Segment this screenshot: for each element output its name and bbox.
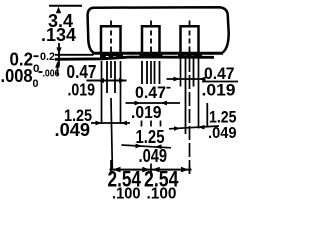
package body outline	[88, 7, 229, 53]
lead 3 centerline extension	[189, 58, 191, 169]
dim 3.4 bottom arrow	[56, 47, 61, 54]
dim 1.25 right line	[169, 126, 219, 129]
lead 2 centerline extension	[150, 61, 152, 84]
lead 2 foot band	[140, 54, 163, 59]
lead 1 wide-edge extension lines	[101, 61, 103, 124]
svg-text:.006: .006	[43, 68, 60, 80]
lead 3 centerline	[189, 21, 191, 53]
svg-text:0.47: 0.47	[135, 83, 166, 102]
dim 1.25 center line	[122, 145, 172, 148]
package bottom extension line	[55, 54, 94, 56]
label 0.2 sup minus	[34, 55, 39, 57]
svg-text:.100: .100	[112, 186, 141, 201]
svg-text:.134: .134	[41, 25, 76, 45]
lead 3 wide-edge extension lines	[180, 58, 182, 87]
svg-text:.008: .008	[1, 66, 33, 86]
svg-text:.049: .049	[208, 125, 237, 142]
lead 3 foot band	[178, 53, 202, 58]
dim 3.4 line	[58, 43, 60, 66]
dim 0.47 right line	[167, 78, 204, 80]
seating plane line	[55, 57, 214, 59]
dim 1.25 left line	[91, 122, 130, 124]
dim 0.47 center line	[126, 102, 181, 104]
lead 1 narrow-edge extension lines	[106, 61, 108, 93]
svg-text:.019: .019	[131, 102, 162, 122]
svg-text:.049: .049	[55, 119, 91, 140]
svg-text:0: 0	[33, 63, 40, 75]
lead 3 outline	[181, 26, 199, 53]
pitch arrows	[113, 167, 121, 173]
svg-text:.100: .100	[147, 186, 177, 201]
pitch dimension bar	[110, 169, 192, 171]
svg-text:1.25: 1.25	[209, 108, 237, 127]
lead 1 centerline extension	[110, 61, 112, 78]
svg-text:0: 0	[33, 78, 39, 90]
lead 3 narrow-edge extension lines	[185, 58, 187, 134]
package body bottom edge	[93, 52, 224, 55]
lead 2 wide-edge dashes	[141, 121, 143, 127]
label .008 sup minus	[39, 71, 43, 73]
lead 1 foot band	[100, 54, 123, 59]
lead 2 outline	[142, 26, 160, 53]
dim 0.47 right fraction bar	[202, 81, 238, 83]
dim 0.47 left line	[87, 80, 127, 82]
lead 2 centerline	[150, 21, 152, 53]
lead 1 centerline	[110, 21, 112, 53]
dim 0.2 arrow	[55, 61, 60, 67]
dim 3.4 top tick	[49, 5, 82, 7]
svg-text:.019: .019	[202, 81, 236, 100]
lead 2 narrow-edge extension lines	[141, 61, 143, 84]
svg-text:0.2: 0.2	[40, 51, 55, 63]
lead 1 outline	[101, 26, 121, 53]
leader vertical right	[206, 103, 208, 127]
pitch tick lead1	[110, 160, 112, 175]
dim 3.4 top arrow	[56, 7, 61, 13]
pitch tick lead2	[150, 164, 152, 177]
svg-text:.049: .049	[139, 146, 168, 166]
svg-text:.019: .019	[68, 80, 96, 100]
svg-text:1.25: 1.25	[136, 127, 165, 147]
